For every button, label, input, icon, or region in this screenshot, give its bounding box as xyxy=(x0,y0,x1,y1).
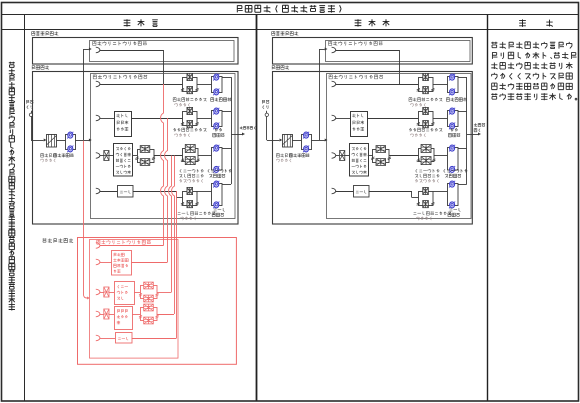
wire main exhaust exit (before) xyxy=(231,134,243,136)
branch 建屋排気 (after) xyxy=(332,81,336,87)
label 廃ガス処理室セル等 (after) xyxy=(352,114,363,118)
wire gb b xyxy=(109,292,114,294)
wire unit to fan セル排気 (after) xyxy=(433,118,448,120)
wire supply duct riser (before) xyxy=(83,49,85,140)
wire row3 c (after) xyxy=(368,155,373,157)
wire unit to fan (after) xyxy=(292,140,301,142)
header 備考 xyxy=(519,19,553,26)
fan 建屋排気排風機 (before) xyxy=(212,77,223,93)
wire hood a xyxy=(100,338,115,340)
wire upper exhaust horizontal (before) xyxy=(100,50,164,52)
arrow supply into 出入管理 (before) xyxy=(84,49,89,51)
label セル (before) xyxy=(215,128,222,131)
box 廃ガス処理室セル等 (before) xyxy=(115,112,132,137)
wire red duct cell xyxy=(165,118,168,262)
label 建屋排気フィルタ (before) xyxy=(173,98,206,102)
branch 建屋排気 (before) xyxy=(96,81,100,87)
branch セル排気 (before) xyxy=(96,115,100,121)
label 廃ガス処理室セル等 (before) xyxy=(116,114,127,118)
wire upper exhaust drop (after) xyxy=(399,50,401,84)
label 汚染のおそれのある区域 upper (before) xyxy=(93,41,147,45)
label 建屋給気ユニット (after) xyxy=(276,154,292,158)
wire fan out セル排気 (after) xyxy=(458,111,467,113)
label 排風機 (before) xyxy=(212,213,224,217)
box グローブボックス xyxy=(115,282,135,305)
wire red duct chem xyxy=(172,156,175,315)
fan グローブボックス排気排風機 (before) xyxy=(212,148,223,171)
branch small フード xyxy=(96,335,100,341)
wire fan to duct (after) xyxy=(311,140,325,142)
wire unit to fan グローブボックス排気 (before) xyxy=(198,155,212,157)
wire gb a xyxy=(100,292,104,294)
wire row3 b (before) xyxy=(109,155,115,157)
filter unit フード排気 (after) xyxy=(419,192,434,206)
label ユニット (before) xyxy=(175,133,190,137)
label 分析建屋 (after) xyxy=(272,65,289,69)
wire row2 a (after) xyxy=(336,118,351,120)
label ユニット (before) xyxy=(181,216,196,220)
label グローブボッ (after) xyxy=(444,169,468,173)
label 主排気筒へ (after) xyxy=(474,123,485,126)
wire upper exhaust drop (before) xyxy=(163,50,165,84)
label ルタユニット (after) xyxy=(415,179,438,183)
branch グローブボックス排気 (before) xyxy=(96,153,100,159)
filter inlet chem xyxy=(104,309,109,319)
wire collection duct (after) xyxy=(466,77,468,184)
wire row3 c (before) xyxy=(132,155,137,157)
fan 建屋送風機 (after) xyxy=(302,135,312,150)
title 分析建屋（建屋換気設備） xyxy=(237,5,341,13)
label 外気より (before) xyxy=(27,100,34,104)
left column vertical caption xyxy=(9,62,15,311)
header separator xyxy=(2,29,579,31)
arrow main exhaust (after) xyxy=(478,133,481,136)
box プルトニウム製品貯蔵 (after) xyxy=(350,144,369,177)
label ク排風機 (before) xyxy=(209,174,225,178)
branch 試験用廃棄物 xyxy=(96,259,100,265)
label フード排気フィルタ (after) xyxy=(413,211,451,215)
wire red duct glovebox xyxy=(169,156,172,293)
fan セル排気排風機 (after) xyxy=(448,111,459,127)
wire red duct hood xyxy=(176,191,178,338)
wire unit to fan フード排気 (after) xyxy=(433,191,448,193)
wire unit to fan (before) xyxy=(57,140,66,142)
filter unit グローブボックス排気 (after) xyxy=(419,149,435,162)
wire row3 a (before) xyxy=(100,155,104,157)
box プルトニウム製品貯蔵 (before) xyxy=(114,144,133,177)
label 外気より (after) xyxy=(262,100,269,104)
wire 試験用 out xyxy=(131,262,167,264)
divider remarks xyxy=(487,15,489,401)
filter pair small chem xyxy=(141,308,158,321)
wire unit to fan グローブボックス排気 (after) xyxy=(434,155,448,157)
label 小型試験建屋 xyxy=(43,238,74,242)
fan フード排気排風機 (after) xyxy=(448,184,459,206)
label フード (after) xyxy=(356,190,366,193)
filter unit 建屋排気 (after) xyxy=(419,78,434,92)
box small フード xyxy=(116,333,133,344)
box 汚染のおそれのある区域 main (after) xyxy=(327,74,472,219)
wire intake drop (before) xyxy=(31,117,33,141)
remarks paragraph xyxy=(491,42,577,101)
wire hood b xyxy=(132,338,177,340)
header 変更後 xyxy=(355,19,390,26)
filter pair glovebox (before) xyxy=(138,150,155,163)
wire row4 a (before) xyxy=(100,191,118,193)
label プルトニウム製品貯蔵グローブボックスの室 (before) xyxy=(116,147,130,150)
arrow into supply unit (after) xyxy=(280,139,283,142)
wire row2 b (before) xyxy=(132,118,183,120)
wire row3 d (before) xyxy=(154,155,183,157)
fan 建屋排気排風機 (after) xyxy=(448,77,459,93)
filter unit フード排気 (before) xyxy=(183,192,198,206)
label グローブボッ (before) xyxy=(180,169,204,173)
label クス排気フィ (after) xyxy=(415,174,439,178)
filter unit 建屋排気 (before) xyxy=(183,78,198,92)
arrow supply into 出入管理 (after) xyxy=(319,49,324,51)
label フード (after) xyxy=(449,208,460,211)
label 出入管理建屋 (after) xyxy=(272,31,299,35)
wire row2 a (before) xyxy=(100,118,115,120)
label グローブボックス xyxy=(118,285,128,288)
label セル排気フィルタ (after) xyxy=(409,128,442,132)
box 出入管理建屋 (before) xyxy=(33,38,239,65)
label プルトニウム製品貯蔵グローブボックスの室 (after) xyxy=(352,147,366,150)
wire chem c xyxy=(132,314,141,316)
wire unit to fan 建屋排気 (before) xyxy=(197,84,212,86)
label 建屋給気ユニット (before) xyxy=(41,154,57,158)
label フード排気フィルタ (before) xyxy=(178,211,216,215)
wire fan out フード排気 (after) xyxy=(458,184,467,186)
filter inlet row3 (before) xyxy=(104,151,109,161)
label クス排気フィ (before) xyxy=(179,174,203,178)
filter unit セル排気 (before) xyxy=(183,112,198,126)
label 汚染のおそれのある区域 main (after) xyxy=(329,75,383,79)
wire fan out セル排気 (before) xyxy=(222,111,231,113)
filter inlet row3 (after) xyxy=(340,151,345,161)
label セル (after) xyxy=(451,128,458,131)
wire row4 a (after) xyxy=(336,191,354,193)
wire unit to fan フード排気 (before) xyxy=(197,191,212,193)
wire row1 (after) xyxy=(336,84,419,86)
label 建屋排風機 (after) xyxy=(446,98,466,102)
wire intake drop (after) xyxy=(266,117,268,141)
wire supply duct riser (after) xyxy=(319,49,321,140)
label 主排気筒へ (before) xyxy=(240,126,255,129)
label 排風機 (after) xyxy=(448,133,460,137)
branch セル排気 (after) xyxy=(332,115,336,121)
branch フード排気 (after) xyxy=(332,188,336,194)
wire main exhaust exit (after) xyxy=(467,134,479,136)
wire chem b xyxy=(109,314,114,316)
label 建屋排風機 (before) xyxy=(211,98,231,102)
wire upper exhaust horizontal (after) xyxy=(336,50,400,52)
arrow into supply unit (before) xyxy=(44,139,47,142)
wire chem a xyxy=(100,314,104,316)
label ユニット (after) xyxy=(410,103,425,107)
wire fan out グローブボックス排気 (after) xyxy=(458,148,467,150)
wire fan out 建屋排気 (before) xyxy=(222,77,231,79)
arrow supply into 分析 (after) xyxy=(325,139,328,142)
label 建屋送風機 (before) xyxy=(54,153,74,157)
wire row1 (before) xyxy=(100,84,183,86)
branch room air upper (after) xyxy=(332,47,336,53)
fan セル排気排風機 (before) xyxy=(212,111,223,127)
divider before-after xyxy=(256,15,258,401)
wire row3 b (after) xyxy=(344,155,350,157)
wire fan out グローブボックス排気 (before) xyxy=(222,148,231,150)
label 分析建屋 (before) xyxy=(32,65,49,69)
label ユニット (before) xyxy=(175,103,190,107)
wire small room air xyxy=(100,245,164,247)
title separator xyxy=(2,14,579,16)
supply unit 建屋給気ユニット (before) xyxy=(47,135,57,148)
label 化学試験セル等 xyxy=(117,309,127,312)
box 汚染のおそれのある区域 upper (after) xyxy=(326,41,471,62)
fan グローブボックス排気排風機 (after) xyxy=(448,148,459,171)
label 汚染のおそれのある区域 upper (after) xyxy=(329,41,383,45)
intake symbol (after) xyxy=(265,113,268,116)
filter unit セル排気 (after) xyxy=(419,112,434,126)
fan 建屋送風機 (before) xyxy=(66,135,76,150)
supply unit 建屋給気ユニット (after) xyxy=(283,135,293,148)
wire gb d xyxy=(157,292,172,294)
wire chem d xyxy=(157,314,174,316)
label 建屋送風機 (after) xyxy=(289,153,309,157)
label 排風機 (before) xyxy=(213,133,225,137)
label ルタユニット (before) xyxy=(179,179,202,183)
wire fan out 建屋排気 (after) xyxy=(458,77,467,79)
branch グローブボックス排気 (after) xyxy=(332,153,336,159)
label 汚染のおそれのある区域 main (before) xyxy=(93,75,147,79)
filter pair glovebox (after) xyxy=(373,150,390,163)
filter pair small gb xyxy=(141,286,158,299)
wire red supply branch to 小型試験建屋 xyxy=(83,141,85,295)
label グローブボッ (after) xyxy=(416,169,440,173)
label 排風機 (after) xyxy=(448,213,460,217)
filter inlet gb xyxy=(104,287,109,297)
arrow supply into 分析 (before) xyxy=(89,139,92,142)
wire unit to fan 建屋排気 (after) xyxy=(433,84,448,86)
box フード (after) xyxy=(354,186,370,198)
divider left column xyxy=(24,15,26,401)
label 汚染のおそれのある区域 small xyxy=(97,240,151,244)
label 建屋排気フィルタ (after) xyxy=(409,98,442,102)
box 廃ガス処理室セル等 (after) xyxy=(351,112,368,137)
wire gb c xyxy=(134,292,141,294)
label small フード xyxy=(118,337,128,340)
label ユニット (after) xyxy=(416,216,431,220)
wire to 試験用廃棄物 box xyxy=(100,262,111,264)
filter unit グローブボックス排気 (before) xyxy=(183,149,199,162)
branch 化学試験セル xyxy=(96,311,100,317)
intake symbol (before) xyxy=(29,113,32,116)
wire row3 a (after) xyxy=(336,155,340,157)
wire row3 d (after) xyxy=(389,155,418,157)
box 汚染のおそれのある区域 small xyxy=(90,240,179,359)
box 出入管理建屋 (after) xyxy=(273,38,473,65)
branch フード排気 (before) xyxy=(96,188,100,194)
wire unit to fan セル排気 (before) xyxy=(197,118,212,120)
box 汚染のおそれのある区域 upper (before) xyxy=(90,41,235,62)
wire row4 b (before) xyxy=(133,191,176,193)
box 小型試験建屋 xyxy=(78,238,237,365)
label セル排気フィルタ (before) xyxy=(173,128,206,132)
label フード (before) xyxy=(214,208,225,211)
fan フード排気排風機 (before) xyxy=(212,184,223,206)
wire red duct room-air xyxy=(161,84,164,246)
wire row2 b (after) xyxy=(367,118,418,120)
label ユニット (after) xyxy=(410,133,425,137)
label 出入管理建屋 (before) xyxy=(32,31,59,35)
header 変更前 xyxy=(124,19,158,26)
branch small room air xyxy=(96,243,100,249)
branch グローブボックス xyxy=(96,289,100,295)
label ク排風機 (after) xyxy=(445,174,461,178)
arrow main exhaust (before) xyxy=(242,133,245,136)
label グローブボッ (before) xyxy=(208,169,232,173)
wire collection duct (before) xyxy=(231,77,233,184)
box 汚染のおそれのある区域 main (before) xyxy=(91,74,236,219)
box 化学試験セル等 xyxy=(115,307,133,330)
box 試験用廃棄物一時貯蔵セル等 xyxy=(112,251,132,276)
box 分析建屋 (before) xyxy=(33,72,239,225)
box フード (before) xyxy=(118,186,134,198)
branch room air upper (before) xyxy=(96,47,100,53)
wire fan to duct (before) xyxy=(76,140,90,142)
box 分析建屋 (after) xyxy=(273,72,473,225)
wire fan out フード排気 (before) xyxy=(222,184,231,186)
label 試験用廃棄物一時貯蔵セル等 xyxy=(114,253,124,256)
wire row4 b (after) xyxy=(369,191,412,193)
label フード (before) xyxy=(120,190,130,193)
